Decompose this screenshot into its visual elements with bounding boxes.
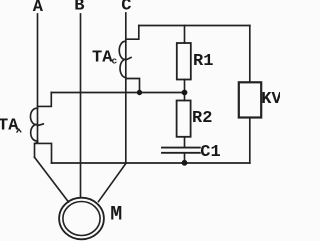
- svg-text:A: A: [33, 0, 44, 17]
- wire top bus: [139, 25, 250, 27]
- svg-text:R2: R2: [192, 109, 212, 128]
- resistor R1: [177, 43, 191, 80]
- svg-text:B: B: [74, 0, 84, 16]
- wire R1 top drop: [184, 26, 186, 44]
- wire C phase vertical: [125, 13, 127, 163]
- wire R2 to C1: [184, 137, 186, 148]
- wire C phase diagonal to motor: [99, 164, 126, 202]
- svg-text:TA: TA: [92, 48, 113, 67]
- svg-text:R1: R1: [193, 52, 213, 71]
- wire TAc secondary bottom hook: [126, 79, 140, 93]
- svg-text:c: c: [112, 56, 118, 67]
- wire bottom bus: [52, 162, 250, 164]
- svg-text:KV: KV: [261, 90, 280, 109]
- wire C1 to bottom bus: [184, 153, 186, 163]
- junction node TAc-bus: [137, 90, 142, 95]
- wire middle bus: [51, 92, 184, 94]
- wire TAa secondary bottom hook: [35, 143, 52, 163]
- svg-text:C: C: [121, 0, 131, 16]
- wire right side bottom: [249, 118, 251, 164]
- svg-text:C1: C1: [200, 143, 220, 162]
- wire A phase diagonal to motor: [35, 157, 69, 202]
- svg-text:TA: TA: [0, 117, 19, 136]
- wire TAc secondary top hook: [126, 26, 139, 40]
- wire A phase lower jog: [35, 142, 38, 157]
- wire right side top: [249, 26, 251, 83]
- capacitor C1: [162, 148, 200, 153]
- junction node C1-bus: [182, 160, 188, 166]
- transformer TAa winding: [30, 108, 43, 141]
- junction node R1-R2: [182, 90, 188, 96]
- wire B phase vertical: [80, 14, 82, 197]
- resistor R2: [177, 101, 191, 137]
- svg-text:M: M: [110, 204, 122, 227]
- wire TAa secondary top hook: [38, 93, 52, 107]
- motor M circles: [59, 198, 104, 240]
- transformer TAc winding: [119, 41, 131, 77]
- wire A phase vertical: [37, 14, 39, 142]
- wire R1 to R2 link: [184, 80, 186, 101]
- voltmeter relay KV: [239, 82, 261, 117]
